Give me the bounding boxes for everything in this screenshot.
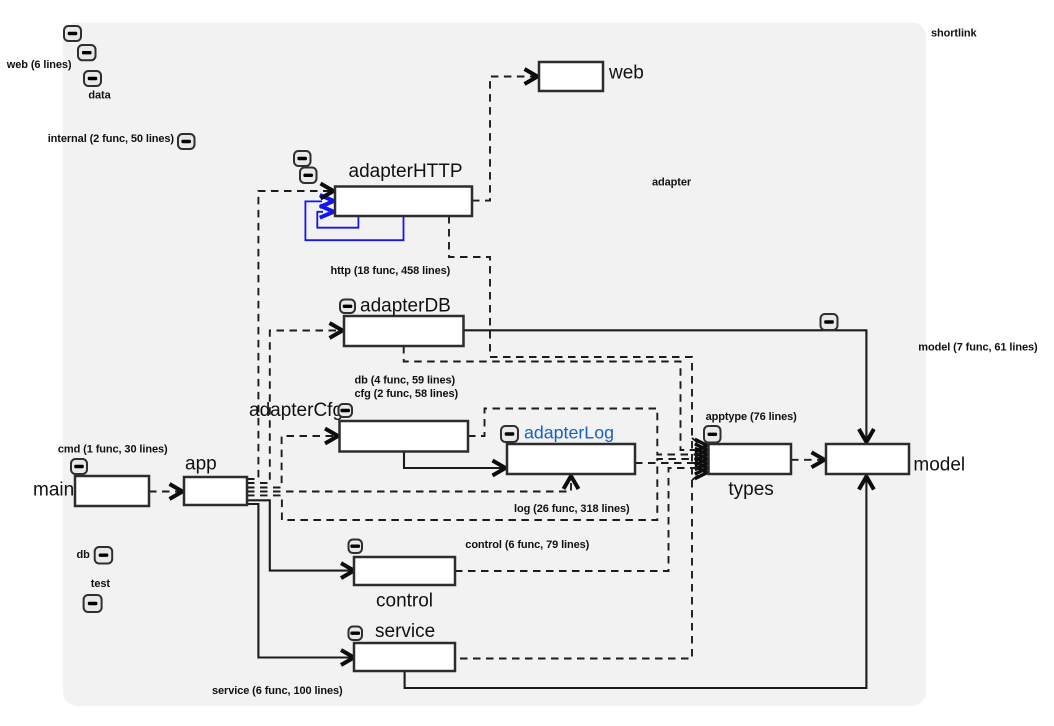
collapse button adapter cluster bbox=[294, 151, 311, 166]
svg-text:model: model bbox=[913, 455, 965, 476]
node types box bbox=[709, 444, 792, 474]
svg-text:apptype (76 lines): apptype (76 lines) bbox=[706, 411, 798, 423]
edge app->service (solid) bbox=[247, 504, 354, 658]
svg-text:log (26 func, 318 lines): log (26 func, 318 lines) bbox=[514, 503, 630, 515]
edge adapterDB->model (solid) bbox=[464, 330, 867, 444]
svg-text:main: main bbox=[33, 479, 74, 500]
svg-text:web: web bbox=[608, 63, 644, 84]
svg-text:service: service bbox=[375, 621, 435, 642]
collapse button test cluster bbox=[84, 595, 102, 612]
edge app->types (dashed) bbox=[247, 459, 698, 520]
diagram canvas background bbox=[63, 23, 926, 707]
svg-text:db (4 func, 59 lines): db (4 func, 59 lines) bbox=[355, 375, 456, 387]
collapse button apptype cluster bbox=[704, 426, 721, 443]
svg-text:db: db bbox=[77, 549, 91, 561]
edge service->model (solid) bbox=[405, 474, 867, 688]
collapse button adapterCfg bbox=[339, 404, 353, 417]
node service box bbox=[354, 643, 455, 671]
collapse button adapterDB bbox=[340, 300, 355, 314]
node control box bbox=[354, 557, 455, 585]
collapse button data cluster bbox=[84, 71, 101, 86]
svg-text:app: app bbox=[185, 453, 217, 474]
node adapterCfg box bbox=[340, 421, 469, 452]
node adapterLog box bbox=[507, 444, 635, 474]
svg-text:internal (2 func, 50 lines): internal (2 func, 50 lines) bbox=[48, 133, 175, 145]
collapse button control bbox=[349, 540, 363, 554]
node app box bbox=[184, 477, 247, 505]
svg-text:adapter: adapter bbox=[652, 177, 692, 189]
edge control->types (dashed) bbox=[455, 468, 698, 571]
edge app->adapterCfg (dashed) bbox=[247, 436, 340, 488]
edge adapterLog->types (dashed) bbox=[635, 462, 698, 464]
edge adapterCfg->types (dashed) bbox=[468, 409, 698, 455]
edge types->model (dashed) bbox=[791, 459, 826, 461]
node adapterHTTP box bbox=[335, 187, 472, 217]
node adapterDB box bbox=[344, 316, 464, 346]
collapse button internal cluster bbox=[178, 134, 195, 149]
collapse button model cluster bbox=[821, 314, 838, 330]
svg-text:control (6 func, 79 lines): control (6 func, 79 lines) bbox=[465, 539, 589, 551]
svg-text:web (6 lines): web (6 lines) bbox=[6, 59, 72, 71]
collapse button web cluster 1 bbox=[64, 26, 81, 41]
edge adapterDB->types (dashed) bbox=[404, 346, 698, 450]
edge app->adapterHTTP (dashed) bbox=[247, 191, 335, 479]
collapse button http cluster bbox=[300, 168, 317, 184]
edge app->adapterLog (dashed) bbox=[247, 475, 571, 492]
svg-text:service (6 func, 100 lines): service (6 func, 100 lines) bbox=[212, 685, 343, 697]
svg-text:adapterHTTP: adapterHTTP bbox=[349, 161, 463, 182]
svg-text:cmd (1 func, 30 lines): cmd (1 func, 30 lines) bbox=[58, 443, 168, 455]
node web box bbox=[539, 62, 603, 91]
edge main->app (dashed) bbox=[149, 491, 184, 493]
svg-text:control: control bbox=[376, 590, 433, 611]
edge app->adapterDB (dashed) bbox=[247, 331, 344, 484]
svg-text:adapterDB: adapterDB bbox=[360, 296, 451, 317]
svg-text:cfg (2 func, 58 lines): cfg (2 func, 58 lines) bbox=[355, 388, 459, 400]
svg-text:http (18 func, 458 lines): http (18 func, 458 lines) bbox=[331, 265, 451, 277]
collapse button db cluster bbox=[95, 547, 113, 564]
edge service->types fan diagonals (dashed) bbox=[692, 438, 699, 444]
edge app->control (solid) bbox=[247, 500, 354, 570]
node model box bbox=[826, 444, 909, 474]
svg-text:data: data bbox=[88, 89, 111, 101]
blue self-loop inner on adapterHTTP bbox=[317, 212, 358, 228]
svg-text:test: test bbox=[91, 578, 111, 590]
collapse button web cluster 2 bbox=[78, 45, 96, 60]
edge adapterHTTP->web (dashed) bbox=[472, 77, 539, 201]
edge adapterHTTP->types (dashed) bbox=[449, 216, 692, 659]
svg-text:types: types bbox=[728, 479, 773, 500]
blue self-loop outer on adapterHTTP bbox=[305, 201, 403, 240]
svg-text:adapterCfg: adapterCfg bbox=[249, 400, 343, 421]
collapse button cmd cluster bbox=[71, 459, 87, 474]
svg-text:shortlink: shortlink bbox=[931, 27, 978, 39]
collapse button service bbox=[349, 627, 363, 641]
node main box bbox=[75, 476, 149, 506]
svg-text:model (7 func, 61 lines): model (7 func, 61 lines) bbox=[918, 341, 1038, 353]
edge adapterCfg->adapterLog (solid) bbox=[404, 452, 507, 469]
svg-text:adapterLog: adapterLog bbox=[524, 423, 614, 443]
collapse button adapterLog bbox=[501, 426, 518, 442]
